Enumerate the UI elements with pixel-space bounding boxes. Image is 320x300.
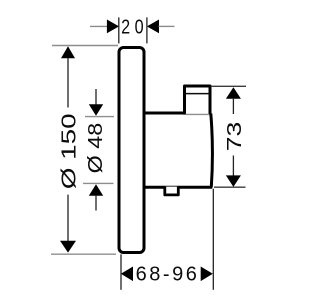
dim D48: bottom extension line	[83, 182, 114, 184]
svg-text:Ø 48: Ø 48	[85, 123, 107, 174]
valve body top edge	[144, 112, 185, 115]
dim 73: upper dim line	[232, 98, 234, 114]
dim 73: bottom extension line	[214, 186, 246, 188]
dim D48: lower tail line	[95, 196, 97, 211]
hidden edge under knob	[186, 113, 210, 115]
dim D48: top arrow (down)	[89, 104, 103, 116]
dim D150: top extension line	[52, 45, 118, 47]
dim D48: bottom arrow (up)	[89, 184, 103, 195]
dim 73: lower dim line	[232, 156, 234, 177]
dim 73: bottom arrow (down)	[226, 175, 241, 187]
dim 20: right leader	[159, 25, 175, 27]
bottom nub	[165, 187, 179, 195]
knob cap inner line	[185, 93, 210, 95]
dim 20: left extension line	[118, 17, 120, 43]
svg-text:2 0: 2 0	[121, 17, 144, 39]
dim 20: right arrow	[147, 20, 159, 34]
escutcheon plate (side view)	[119, 48, 144, 253]
dim D150: upper dim line	[67, 58, 69, 108]
dim 20: right extension line	[146, 17, 148, 43]
dim D48: top extension line	[85, 116, 114, 118]
dim 68-96: right extension line	[212, 189, 214, 290]
dim D150: lower dim line	[67, 195, 69, 241]
svg-text:68-96: 68-96	[136, 264, 200, 286]
dim D150: bottom arrow	[60, 241, 76, 253]
dim D150: bottom extension line	[51, 253, 116, 255]
dim 20: left leader	[90, 25, 108, 27]
dim 68-96: left arrow	[121, 267, 133, 282]
dim 20: left arrow	[107, 20, 119, 34]
dim D150: top arrow	[61, 46, 75, 58]
dim 73: top extension line	[211, 85, 246, 87]
svg-text:73: 73	[224, 122, 246, 152]
handle knob	[185, 86, 211, 115]
dim 68-96: right arrow	[201, 267, 213, 282]
valve body front edge	[211, 114, 213, 188]
dim 73: top arrow (up)	[226, 87, 241, 99]
svg-text:Ø 150: Ø 150	[59, 113, 81, 189]
dim D48: upper tail line	[95, 89, 97, 105]
dim 68-96: left extension line	[120, 254, 122, 289]
valve body bottom edge	[144, 186, 212, 189]
